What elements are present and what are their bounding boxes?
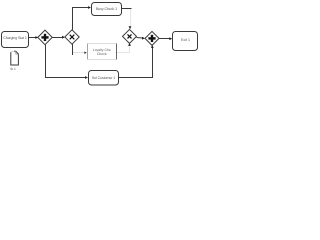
svg-text:Busy Check 1: Busy Check 1 <box>96 7 117 11</box>
svg-text:St 1: St 1 <box>10 67 16 71</box>
svg-text:Check: Check <box>97 52 107 56</box>
exclusive gateway G2 <box>65 30 79 44</box>
wire Sel Customer to G4 <box>119 45 154 78</box>
exclusive gateway G3 <box>123 29 137 43</box>
wire G2 down to Loyalty Check (faint horizontal) <box>73 44 87 55</box>
parallel gateway G1 <box>38 30 52 45</box>
wire Busy Check to G3 <box>122 9 132 30</box>
task Charging Station <box>2 32 29 48</box>
task Busy Check <box>92 3 122 16</box>
svg-text:Exit 1: Exit 1 <box>181 38 190 42</box>
wire Loyalty Check to G3 (faint) <box>117 43 131 53</box>
wire G1 to G2 <box>52 36 65 39</box>
task Exit <box>173 32 198 51</box>
subprocess Loyalty Check (light border) <box>88 44 117 60</box>
svg-text:Charging Stat 1: Charging Stat 1 <box>3 36 27 40</box>
wire G3 to G4 <box>137 37 146 40</box>
wire task to gateway G1 <box>29 36 39 39</box>
wire G1 down to Sel Customer <box>46 45 89 79</box>
data object St 1 <box>10 51 18 71</box>
task Sel Customer <box>89 71 119 86</box>
wire G2 up to Busy Check <box>73 6 92 30</box>
svg-text:Sel Customer 1: Sel Customer 1 <box>92 76 115 80</box>
wire G4 to Exit task <box>159 37 172 40</box>
parallel gateway G4 <box>145 31 159 45</box>
